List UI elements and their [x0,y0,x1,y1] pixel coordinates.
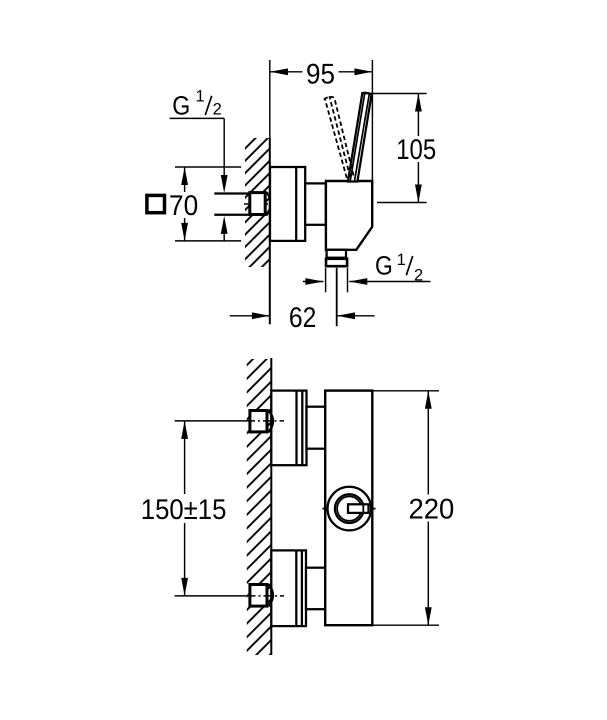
svg-text:2: 2 [414,266,423,284]
svg-text:1: 1 [397,251,406,269]
svg-text:1: 1 [196,88,205,106]
svg-text:220: 220 [409,494,455,526]
svg-text:62: 62 [289,302,316,334]
svg-text:70: 70 [169,190,198,222]
svg-text:105: 105 [396,134,436,166]
svg-text:150±15: 150±15 [141,494,227,526]
svg-text:95: 95 [306,59,335,91]
svg-text:2: 2 [213,101,222,119]
svg-text:G: G [172,91,190,121]
svg-text:G: G [375,251,393,281]
